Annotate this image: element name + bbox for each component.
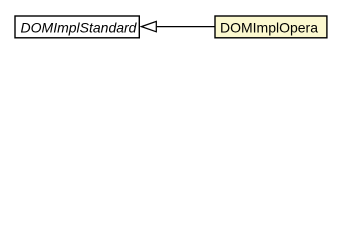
- wire from arrow to DOMImplOpera: [157, 26, 216, 28]
- svg-text:DOMImplStandard: DOMImplStandard: [21, 19, 138, 35]
- svg-text:DOMImplOpera: DOMImplOpera: [220, 19, 318, 35]
- class box DOMImplOpera (selected, yellow): [215, 16, 327, 38]
- class box DOMImplStandard: [15, 16, 139, 38]
- inheritance arrow (hollow triangle): [141, 21, 156, 31]
